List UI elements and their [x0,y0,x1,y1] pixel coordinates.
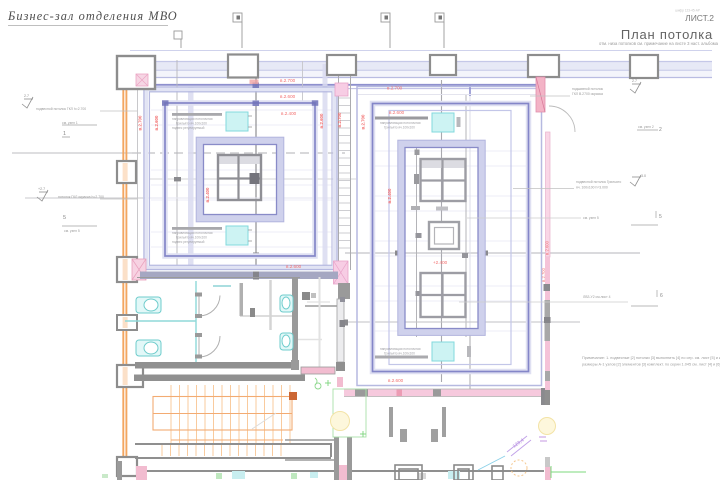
svg-text:Бизнес-зал отделения МВО: Бизнес-зал отделения МВО [7,9,178,23]
svg-text:в.2.400: в.2.400 [281,111,297,116]
right coffer label bottom [375,347,428,359]
right note leader lines [459,218,628,302]
stair top wall [134,375,305,382]
right note 1 [530,79,641,96]
orange glow inside columns [123,163,128,385]
furniture bottom right [395,465,503,480]
svg-text:см. узел 2: см. узел 2 [638,125,654,129]
svg-text:в.2.600: в.2.600 [280,94,296,99]
column A5 [528,55,559,77]
left note 1 flag [22,97,33,108]
svg-text:см. узел 1: см. узел 1 [62,121,78,125]
svg-text:размеры А-1 узлов [2] элементо: размеры А-1 узлов [2] элементов [3] комп… [582,363,720,367]
bottom wall 2 [135,457,331,459]
toilet partition vertical [195,281,197,368]
axis line horizontal lower [25,197,143,199]
bottom left pier [117,461,122,480]
left coffer vertical beam [188,87,194,270]
pink corner box left coffer bottom [132,259,146,280]
hall south wall line [137,277,300,279]
pink corner box top-left [136,74,148,86]
stair risers [171,385,290,444]
svg-text:потолок ГКЛ окраска h=2.700: потолок ГКЛ окраска h=2.700 [58,195,104,199]
left note 3 flag [37,190,48,201]
stair landing mark [289,392,297,400]
bottom note text [582,356,720,367]
svg-text:подвесной потолок ГКЛ h=2.700: подвесной потолок ГКЛ h=2.700 [36,107,86,111]
axis marker 3 [381,13,390,48]
svg-text:подвесной потолок Грильято: подвесной потолок Грильято [576,180,621,184]
axis line horizontal right coffer [345,252,640,254]
column B4 left [117,365,143,387]
left coffer inner band [196,137,284,222]
left coffer diffuser top [226,112,252,131]
axis line vertical right coffer [441,80,443,382]
hall south wall band [140,272,338,280]
svg-text:+2.7: +2.7 [38,187,45,191]
toilet door 2 [195,333,220,359]
toilet block right wall [292,277,298,368]
column B2 left [117,257,137,282]
svg-text:в.2.700: в.2.700 [361,114,366,129]
right coffer center fixture [429,222,459,249]
column B1 left [117,161,136,183]
toilet wc4 [280,333,293,350]
svg-text:в.2.600: в.2.600 [545,240,550,255]
pink south wall right [344,389,544,397]
toilet partition horizontal [125,320,196,322]
svg-text:в.2.600: в.2.600 [319,113,324,128]
right note 4 [583,211,662,225]
right coffer rect2 [373,104,529,372]
svg-text:1: 1 [63,131,66,137]
door jambs bottom right [389,407,393,437]
bottom center vertical walls [334,437,339,480]
svg-text:в.2.700: в.2.700 [138,115,143,130]
gap strip pink bottom [334,261,349,284]
svg-text:в.2.600: в.2.600 [286,264,302,269]
toilet-hall connector wall [291,360,299,370]
yellow circle 2 [539,418,556,435]
svg-text:в.2.700: в.2.700 [337,112,342,127]
svg-text:Примечание: 1. подвесные [2] п: Примечание: 1. подвесные [2] потолки [3]… [582,356,720,360]
svg-text:подшивной потолок: подшивной потолок [572,87,604,91]
ceiling level-change line [143,84,541,96]
svg-text:в.2.600: в.2.600 [388,378,404,383]
title main [7,9,178,26]
violet marks right wall [539,437,547,441]
svg-text:ГКЛ В.2700 окраска: ГКЛ В.2700 окраска [572,92,603,96]
svg-text:в.2.400: в.2.400 [205,187,210,202]
top ceiling band [130,51,712,78]
svg-text:см. узел 5: см. узел 5 [64,229,80,233]
hall west wall face [137,89,139,270]
svg-text:яч. 100х100 h=3.000: яч. 100х100 h=3.000 [576,185,608,189]
toilet interior wall [240,283,244,316]
svg-text:План потолка: План потолка [621,27,713,42]
left coffer label bottom [172,227,222,244]
left note 2 [62,124,97,126]
stair flight outline [153,397,292,441]
gap strip pink top [335,83,348,96]
violet leader bottom [507,436,531,456]
toilet wc3 [280,295,293,312]
green arrow bottom right [551,466,586,478]
toilet door 1 [195,293,220,319]
svg-text:в.2.700: в.2.700 [387,86,403,91]
column B5 left bottom [117,457,137,476]
bottom wall 3 [146,470,544,472]
gap strip gray block [338,283,350,299]
svg-text:Грильято яч.100х100: Грильято яч.100х100 [176,122,207,126]
svg-text:подвес регулируемый: подвес регулируемый [172,240,205,244]
green zone rect [315,378,366,437]
yellow circle 1 [331,412,350,431]
axis line vertical left coffer [255,56,257,270]
svg-text:в.2.700: в.2.700 [541,267,546,282]
right coffer outer rect [357,87,542,386]
leader line lower right [344,321,580,323]
svg-text:направляющая потолочная: направляющая потолочная [380,347,421,351]
svg-text:направляющая потолочная: направляющая потолочная [172,117,213,121]
ceiling runner lines right coffer [416,148,418,337]
svg-text:в.2.600: в.2.600 [154,115,159,130]
intersection ticks [162,83,318,107]
right note 5 [583,290,663,306]
left coffer diffuser bottom [226,226,252,245]
svg-text:Грильято яч.100х100: Грильято яч.100х100 [384,126,415,130]
svg-text:направляющая потолочная: направляющая потолочная [380,121,421,125]
sheet number [599,9,719,47]
svg-text:Грильято яч.100х100: Грильято яч.100х100 [384,352,415,356]
right coffer grid top [421,159,467,201]
svg-text:2.7: 2.7 [24,94,29,98]
svg-text:6: 6 [660,293,663,299]
svg-text:5: 5 [659,214,662,220]
right coffer label top [375,117,428,130]
bottom wall 1 [135,444,331,457]
toilet wc1 [136,297,161,313]
svg-text:2.7: 2.7 [632,79,637,83]
svg-text:подвес регулируемый: подвес регулируемый [172,126,205,130]
right coffer inner band [398,140,485,335]
left coffer mid rect [165,103,315,256]
svg-text:5: 5 [63,215,66,221]
left coffer center light fixture grid [218,155,261,200]
right wall segments [544,132,551,480]
left coffer outer band [144,87,337,270]
cyan leader bottom [478,456,505,470]
right coffer grid bottom [421,273,466,317]
door arc right wall [549,106,575,132]
washbasin [250,308,255,317]
column A2 [228,55,258,78]
svg-text:Грильято яч.100х100: Грильято яч.100х100 [176,236,207,240]
faint ceiling stripes right coffer [374,151,527,331]
left coffer label top [172,113,222,130]
gap strip rungs [339,98,350,248]
axis line horizontal upper [12,152,132,154]
stair bottom risers [162,445,281,456]
svg-text:3.0: 3.0 [641,174,646,178]
right note 3 [513,174,646,189]
hall lower west wall [305,299,345,387]
svg-text:шифр 123-45-АР: шифр 123-45-АР [675,9,700,13]
svg-text:отм. низа потолков см. примеча: отм. низа потолков см. примечание на лис… [599,41,719,46]
svg-text:ЛИСТ.2: ЛИСТ.2 [685,13,714,23]
column A1 top-left [117,56,155,89]
column A3 [327,55,356,75]
wall stub over stairs [301,367,335,374]
toilet bottom wall [135,362,297,369]
right coffer rect3 [389,111,511,365]
right coffer diffuser bottom [432,342,454,361]
right coffer diffuser top [432,113,454,132]
gap strip rails [339,75,351,270]
column A4 [430,55,456,75]
bottom left pink [136,466,147,480]
svg-text:в.2.400: в.2.400 [387,188,392,203]
pink pier top-right [536,77,545,112]
svg-text:2: 2 [659,127,662,133]
svg-text:+2.400: +2.400 [433,260,448,265]
column A6 [630,55,658,78]
svg-text:в.2.700: в.2.700 [280,78,296,83]
column B3 left [117,315,137,330]
axis marker 2 [233,13,242,48]
axis marker 1 [174,31,182,48]
left coffer vertical beam right [323,64,328,270]
svg-text:см. узел 5: см. узел 5 [583,216,599,220]
axis marker 4 [435,13,444,48]
svg-text:направляющая потолочная: направляющая потолочная [172,231,213,235]
orange dashed circle [511,460,527,476]
bottom corridor colored marks [102,471,460,479]
right note 2 [637,125,662,133]
hanger line [302,61,304,103]
toilet wc2 [136,340,161,356]
svg-text:в.2.600: в.2.600 [389,110,405,115]
faint ceiling stripes left coffer [151,110,332,247]
svg-text:ЛВЗ-У2 см.лист 4: ЛВЗ-У2 см.лист 4 [583,295,611,299]
axis line vertical secondary [176,60,178,270]
axis line horizontal mid [150,178,356,180]
